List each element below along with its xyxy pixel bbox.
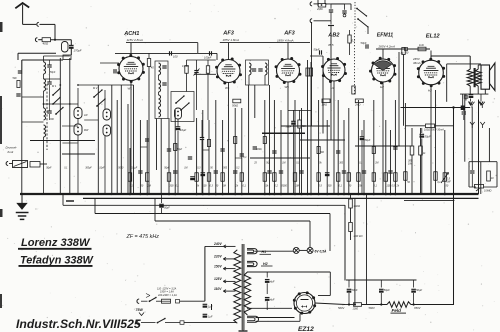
tube V2 AF3 IF amplifier <box>217 60 240 83</box>
svg-text:100: 100 <box>173 55 178 59</box>
wire comb vertical x395 <box>394 100 396 194</box>
resistor Rc28 <box>384 173 387 182</box>
svg-text:EL12: EL12 <box>426 34 441 40</box>
wire efm bundle vertical <box>398 52 400 146</box>
wire below-bus line 3 <box>154 198 156 221</box>
capacitor C17 across secondary <box>465 94 467 95</box>
capacitor C21 mains <box>203 303 208 305</box>
capacitor C3 beside coil A <box>47 64 51 66</box>
svg-text:ZF = 475 kHz: ZF = 475 kHz <box>126 234 160 240</box>
svg-text:0,1: 0,1 <box>243 157 247 159</box>
wire secondary top line <box>247 271 330 273</box>
resistor R14 33k <box>350 194 352 199</box>
svg-text:50: 50 <box>446 185 449 188</box>
coil L1 input loop <box>62 42 69 53</box>
electrolytic Cc6 <box>201 172 206 174</box>
svg-text:W1: W1 <box>225 86 230 90</box>
wire tie mid c <box>235 157 242 159</box>
capacitor Cm6 <box>240 153 244 155</box>
capacitor Cm3 <box>188 156 192 158</box>
wire tie mid b <box>203 149 209 151</box>
wire AVC line 1 <box>30 140 95 142</box>
capacitor C9 osc electrolytic <box>176 126 181 128</box>
resistor Rc19 <box>309 68 312 76</box>
resistor Rc7 <box>207 173 210 182</box>
wire V2 bottom <box>228 83 230 195</box>
chassis bar mains caps <box>211 304 213 310</box>
antenna <box>15 3 29 8</box>
T4 heater winding H2 loops <box>247 261 257 266</box>
wire comb vertical x147 <box>146 120 148 194</box>
resistor Rc22 <box>337 173 340 182</box>
svg-text:2MΩ: 2MΩ <box>316 7 323 11</box>
svg-text:50: 50 <box>406 52 409 55</box>
resistor Rc14 <box>273 173 276 182</box>
electrolytic C18 50uF <box>421 128 423 133</box>
electrolytic C27 50uF first <box>348 280 350 288</box>
ground arrow output b <box>479 102 483 106</box>
svg-text:110V: 110V <box>214 287 222 291</box>
svg-text:185V 1.8mA: 185V 1.8mA <box>223 38 240 42</box>
dial lamp LP1 <box>293 247 299 253</box>
svg-text:10pF: 10pF <box>99 168 105 170</box>
wire T2 columns down <box>248 85 250 194</box>
resistor R2 40k <box>148 53 150 58</box>
wire efm hz y146 <box>399 145 412 147</box>
svg-text:0,3: 0,3 <box>210 185 214 188</box>
capacitor Cm8 <box>272 150 276 152</box>
wire H1 to lamps <box>255 250 294 252</box>
junction dot comb x222 <box>221 193 224 196</box>
junction dot comb x130 <box>129 193 132 196</box>
capacitor Cc4 <box>173 170 177 172</box>
wire lamp link <box>299 249 307 251</box>
capacitor Cc26 <box>362 170 366 172</box>
resistor R12 10k <box>487 171 491 181</box>
svg-text:150V: 150V <box>214 264 223 268</box>
wire comb vertical x344 <box>343 120 345 194</box>
T4 earth bottom <box>242 330 244 331</box>
capacitor C5 beside coil A <box>47 110 51 112</box>
svg-text:50µF: 50µF <box>177 149 183 151</box>
resistor Rc16 <box>293 173 296 182</box>
svg-text:560V: 560V <box>369 306 375 310</box>
junction dot comb x373 <box>373 193 376 196</box>
wire left outer vertical <box>21 60 23 194</box>
capacitor C19 4uF top right <box>463 107 465 111</box>
jack J1 antenna socket <box>37 22 39 26</box>
resistor Rc31 <box>443 173 446 182</box>
potentiometer R19 volume <box>441 173 449 184</box>
resistor Rc27 <box>372 173 375 182</box>
wire HV top to EZ12 <box>247 307 292 309</box>
dial lamp LP2 <box>307 247 313 253</box>
wire R9 line <box>405 125 425 127</box>
switch S1 wave band <box>53 89 60 96</box>
svg-text:240V: 240V <box>213 242 223 246</box>
resistor R18 osc right <box>206 66 209 74</box>
svg-text:0,1: 0,1 <box>130 185 134 188</box>
switch S5 second cluster <box>97 99 105 106</box>
capacitor mains small box <box>176 300 180 304</box>
resistor Rc20 <box>317 173 320 182</box>
wire comb vertical x202 <box>202 110 204 194</box>
coil L14b T1 lower <box>159 109 161 117</box>
T4 heater winding H1 loops <box>247 249 257 254</box>
junction dot comb x318 <box>317 193 320 196</box>
chassis bar below bus x70 <box>66 200 74 202</box>
wire speaker return long <box>478 100 480 194</box>
junction dots left block <box>59 84 61 86</box>
junction dot comb x215 <box>215 193 218 196</box>
junction dot comb x311 <box>310 193 313 196</box>
svg-text:0,1: 0,1 <box>359 163 363 165</box>
resistor R23 500 AB2 <box>298 120 301 128</box>
electrolytic Cm4 <box>190 176 195 178</box>
svg-text:4µF: 4µF <box>270 280 275 284</box>
tube V5 EFM11 magic eye <box>372 59 395 82</box>
svg-text:300: 300 <box>170 185 175 188</box>
junction dot comb x202 <box>202 193 205 196</box>
wire left hz y126 <box>62 125 78 127</box>
svg-text:50p: 50p <box>266 163 271 165</box>
svg-text:300: 300 <box>50 119 55 121</box>
wire top edge tick a <box>317 0 319 6</box>
svg-text:AB2: AB2 <box>327 33 340 39</box>
wire comb vertical x318 <box>318 100 320 194</box>
svg-text:300: 300 <box>320 152 325 154</box>
resistor Rc9 <box>221 173 224 182</box>
svg-text:1W: 1W <box>447 181 451 184</box>
choke L10 mains filter <box>30 162 40 168</box>
resistor R10 300ohm <box>410 146 414 155</box>
junction dot comb x390 <box>389 193 392 196</box>
electrolytic Cc21 <box>325 172 330 174</box>
junction dot comb x269 <box>268 193 271 196</box>
resistor R17 osc <box>185 66 188 74</box>
svg-text:1µF: 1µF <box>208 305 213 309</box>
jack J5 pickup lower <box>310 19 312 23</box>
wire mid line right half b <box>300 139 345 141</box>
electrolytic C26 50uF <box>413 280 415 288</box>
svg-text:0,1: 0,1 <box>437 182 441 184</box>
capacitor C7 T1 <box>162 65 166 67</box>
svg-text:0,1: 0,1 <box>374 185 378 188</box>
svg-text:2k: 2k <box>396 185 400 188</box>
svg-text:100: 100 <box>203 185 208 188</box>
wire below-bus drop c <box>309 221 311 248</box>
wire L8 column <box>77 88 79 108</box>
capacitor C23 4uF <box>266 272 268 278</box>
capacitor C20 10000pF <box>470 170 474 172</box>
capacitor Cm5 <box>220 148 224 150</box>
wire comb vertical x209 <box>208 120 210 194</box>
capacitor Cc29 <box>388 170 392 172</box>
wire sub line right y200 <box>404 199 454 201</box>
capacitor C16 EFM grid 50pF <box>365 44 367 48</box>
resistor R21 1M AB2 cathode <box>322 99 330 103</box>
svg-text:50pF: 50pF <box>50 72 56 74</box>
wire mid right bundle b <box>281 125 330 127</box>
wire comb vertical x169 <box>168 118 170 194</box>
svg-text:40Ω: 40Ω <box>43 42 49 46</box>
svg-text:H2: H2 <box>428 89 432 93</box>
second bus line <box>83 197 479 199</box>
svg-text:Industr.Sch.Nr.VIII525: Industr.Sch.Nr.VIII525 <box>16 317 141 331</box>
wire comb vertical x175 <box>174 110 176 194</box>
EFM11 shading sector <box>375 61 392 71</box>
wire V3 bottom <box>287 82 289 194</box>
junction dot comb x196 <box>195 193 198 196</box>
svg-text:50: 50 <box>210 168 213 170</box>
wire ACH1 anode line <box>126 42 198 44</box>
wire left block top <box>22 59 63 61</box>
wire tie left bank b <box>22 121 44 123</box>
svg-text:5k: 5k <box>197 185 200 188</box>
junction dot comb x281 <box>280 193 283 196</box>
wire ACH1 left stub <box>100 62 119 64</box>
svg-text:25: 25 <box>253 163 257 165</box>
svg-text:40: 40 <box>151 66 154 70</box>
capacitor mains small box 2 <box>180 321 184 325</box>
svg-text:500: 500 <box>302 125 307 128</box>
svg-text:2MΩ: 2MΩ <box>354 104 360 107</box>
wire right column 405 <box>404 103 406 194</box>
wire speaker frame top <box>447 63 481 65</box>
wire below-bus line 1 <box>62 194 64 205</box>
junction dot comb x175 <box>174 193 177 196</box>
svg-text:5000: 5000 <box>256 149 262 151</box>
svg-text:500: 500 <box>223 168 228 170</box>
svg-text:36mA: 36mA <box>413 61 421 65</box>
svg-text:2M: 2M <box>147 185 151 188</box>
wire comb vertical x274 <box>273 100 275 194</box>
wire mains lower to transformer <box>165 322 180 324</box>
svg-text:1kΩ: 1kΩ <box>419 43 424 47</box>
svg-text:50pF: 50pF <box>46 168 52 170</box>
svg-text:100pF: 100pF <box>204 56 212 60</box>
junction dot comb x364 <box>363 193 366 196</box>
svg-text:0,1MΩ: 0,1MΩ <box>182 66 189 68</box>
wire V5 bottom <box>382 82 384 194</box>
EZ12 inner electrodes <box>301 299 309 301</box>
wire tie left bank d <box>84 119 98 121</box>
resistor Rc0 <box>128 173 131 182</box>
wire tone net bottom <box>469 186 476 188</box>
capacitor C11 T2 trim <box>252 68 256 70</box>
wire T3 secondary bottom <box>477 86 479 94</box>
wire mains feed vertical <box>204 246 206 301</box>
svg-text:Lorenz 338W: Lorenz 338W <box>21 237 91 249</box>
svg-text:Feld: Feld <box>392 308 402 313</box>
svg-text:1MΩ: 1MΩ <box>322 104 327 107</box>
svg-text:0,1: 0,1 <box>176 185 180 188</box>
wire cap column <box>49 60 51 65</box>
underline Lorenz <box>18 248 92 250</box>
wire comb vertical x385 <box>385 120 387 194</box>
resistor Rc25 <box>357 173 360 182</box>
resistor Rm5 <box>317 147 320 154</box>
T4 tap 220V <box>223 258 235 260</box>
svg-text:10k: 10k <box>265 185 270 188</box>
svg-text:50pF: 50pF <box>314 47 320 51</box>
junction dot comb x338 <box>337 193 340 196</box>
electrolytic C28 50uF AB2 <box>291 120 296 122</box>
svg-text:0,5: 0,5 <box>319 185 323 188</box>
svg-text:1µF: 1µF <box>208 315 213 319</box>
wire Feld to B+ corner <box>411 304 454 306</box>
potentiometer R13 0.5M tone <box>475 184 484 188</box>
wire corner anode-grid <box>197 43 199 54</box>
capacitor C14 trimmer <box>342 10 346 12</box>
capacitor C6 grid coupling <box>169 51 171 55</box>
wire osc hz 74 <box>194 73 216 75</box>
mechanical link dashed <box>46 84 48 150</box>
wire comb vertical x241 <box>241 108 243 194</box>
wire comb vertical x196 <box>196 118 198 194</box>
junction dot comb x241 <box>241 193 244 196</box>
wire V3 top <box>287 43 289 59</box>
wire choke row <box>9 163 13 165</box>
svg-text:170pF: 170pF <box>74 49 82 53</box>
coil pair L8b iron core <box>74 124 82 135</box>
svg-text:ACH1: ACH1 <box>123 31 139 37</box>
svg-text:50pF: 50pF <box>164 168 170 170</box>
IF transformer T1 frame <box>155 61 168 119</box>
wire left hz y97 <box>22 96 44 98</box>
coil pair L11b iron core <box>103 125 111 136</box>
wire osc top hz <box>187 59 216 61</box>
svg-text:EZ12: EZ12 <box>298 326 314 332</box>
resistor Rm1 <box>174 144 177 151</box>
svg-text:1M: 1M <box>184 168 187 170</box>
ground chassis mark pickup <box>328 25 334 27</box>
resistor R4 pickup series <box>318 3 326 7</box>
wire V1 bottom <box>130 81 132 195</box>
resistor Rc3 <box>167 173 170 182</box>
svg-text:5k: 5k <box>319 163 322 165</box>
switch S10 mains lower <box>141 322 156 324</box>
wire cluster hz2 <box>44 103 79 105</box>
wire comb vertical x264 <box>264 100 266 194</box>
svg-text:50: 50 <box>141 185 144 188</box>
capacitor Cc1 <box>138 170 142 172</box>
svg-text:300pF: 300pF <box>85 168 92 170</box>
wire comb vertical x338 <box>337 100 339 194</box>
svg-text:5000: 5000 <box>118 168 124 170</box>
T4 tap 240V <box>223 245 235 247</box>
junction dot comb x264 <box>264 193 267 196</box>
svg-text:0,5: 0,5 <box>392 185 396 188</box>
oscillator coil L15 iron core <box>175 108 182 119</box>
capacitor C22 mains <box>203 313 208 315</box>
wire grid line to AF3 <box>198 52 217 54</box>
svg-text:MW: MW <box>84 129 89 132</box>
wire AB2 cathode hz <box>288 110 312 112</box>
resistor R20 filter series <box>354 303 362 307</box>
resistor Rc5 <box>195 173 198 182</box>
svg-text:funk: funk <box>8 150 14 154</box>
coil L13 T1 secondary <box>159 80 161 92</box>
resistor Rc11 <box>240 173 243 182</box>
jack J2 short-wave socket <box>35 38 37 42</box>
wire right column x480 lower <box>480 162 482 194</box>
svg-text:H2: H2 <box>263 262 268 266</box>
wire coil A stubs <box>43 56 45 62</box>
switch S7 osc <box>181 103 189 110</box>
capacitor C9c osc <box>200 137 204 139</box>
svg-text:50µF: 50µF <box>164 207 170 210</box>
resistor R6 <box>352 86 355 94</box>
svg-text:M 2: M 2 <box>93 86 98 90</box>
switch S4 second cluster <box>94 90 102 97</box>
resistor Rm3 <box>234 137 237 144</box>
tube V7 EZ12 rectifier <box>294 293 315 314</box>
svg-text:50µF: 50µF <box>365 139 371 142</box>
junction dot comb x358 <box>357 193 360 196</box>
junction dot comb x395 <box>394 193 397 196</box>
scan artifact top-left edge <box>0 22 3 32</box>
svg-text:LW: LW <box>84 114 88 117</box>
wire antenna stem <box>22 5 24 25</box>
capacitor C6b ACH1 grid <box>113 69 115 73</box>
svg-text:300: 300 <box>328 185 333 188</box>
svg-text:5000: 5000 <box>282 185 288 188</box>
capacitor C4 beside coil A <box>47 81 51 83</box>
junction dot comb x444 <box>444 193 447 196</box>
wire switch feed <box>331 3 345 5</box>
wire mid line right half a <box>262 132 305 134</box>
arrow terminals right mid <box>470 122 475 128</box>
wire vertical x489 <box>488 128 490 162</box>
wire below-bus drop b <box>329 214 331 252</box>
capacitor C1 170pF <box>70 40 72 45</box>
T4 tap 150V <box>223 268 235 270</box>
power transformer T4 primary winding <box>234 250 241 324</box>
resistor Rm6 <box>372 147 375 154</box>
svg-text:10: 10 <box>491 177 494 180</box>
svg-text:50: 50 <box>349 185 352 188</box>
wire R8 left <box>406 48 418 50</box>
wire drop 355 <box>354 198 356 304</box>
capacitor C9b trimmer osc <box>194 70 198 72</box>
junction dot comb x147 <box>146 193 149 196</box>
wire phono bundle vertical a <box>311 22 313 126</box>
wire switch to EFM column <box>367 27 369 34</box>
tone control network box wires <box>469 161 497 163</box>
wire comb vertical x130 <box>129 148 131 194</box>
wire mains upper to feed <box>156 300 162 302</box>
switch S9 mains upper <box>141 300 148 302</box>
wire comb vertical x295 <box>294 100 296 194</box>
svg-text:300: 300 <box>339 163 344 165</box>
resistor R11 1k <box>419 146 423 155</box>
junction dot comb x295 <box>294 193 297 196</box>
wire drop 366 <box>366 194 368 305</box>
svg-text:220V: 220V <box>213 255 223 259</box>
wire V1 top <box>130 43 132 57</box>
wire EZ12 right bundle <box>318 295 330 297</box>
svg-text:50µF: 50µF <box>384 288 390 292</box>
svg-text:75W: 75W <box>136 308 144 312</box>
choke L9 mains filter <box>13 161 28 168</box>
svg-text:Tefadyn 338W: Tefadyn 338W <box>20 254 95 266</box>
speaker LS1 cone <box>490 63 495 91</box>
choke Feld zigzag <box>387 302 411 308</box>
wire filter bottom line b <box>362 304 388 306</box>
coil pair L8a iron core <box>74 108 82 119</box>
resistor Rc30 <box>394 173 397 182</box>
